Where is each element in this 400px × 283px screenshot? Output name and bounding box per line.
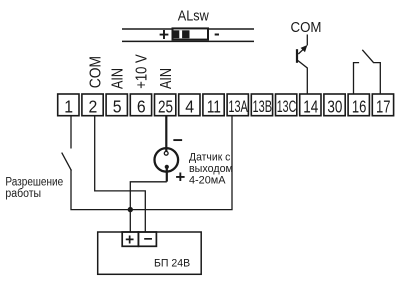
svg-text:16: 16 xyxy=(352,96,367,116)
svg-text:30: 30 xyxy=(327,96,342,116)
svg-text:4: 4 xyxy=(185,96,194,116)
svg-text:13C: 13C xyxy=(277,98,297,116)
svg-text:БП 24В: БП 24В xyxy=(154,257,190,269)
svg-text:AIN: AIN xyxy=(109,68,126,89)
svg-text:+: + xyxy=(175,167,185,186)
svg-text:25: 25 xyxy=(158,96,173,116)
svg-text:14: 14 xyxy=(303,96,318,116)
svg-text:работы: работы xyxy=(5,188,41,200)
svg-text:-: - xyxy=(214,24,220,43)
svg-text:+: + xyxy=(125,232,134,249)
svg-text:13A: 13A xyxy=(228,98,248,116)
svg-text:Датчик с: Датчик с xyxy=(189,151,231,163)
svg-text:выходом: выходом xyxy=(189,163,233,175)
svg-text:6: 6 xyxy=(137,96,146,116)
svg-text:−: − xyxy=(143,231,152,248)
svg-text:11: 11 xyxy=(207,96,221,116)
svg-text:−: − xyxy=(173,130,183,150)
svg-text:1: 1 xyxy=(64,96,73,116)
svg-text:5: 5 xyxy=(113,96,122,116)
svg-text:Разрешение: Разрешение xyxy=(5,177,63,189)
svg-text:+: + xyxy=(159,25,169,45)
svg-text:AIN: AIN xyxy=(158,68,175,89)
svg-text:13B: 13B xyxy=(253,98,273,116)
svg-text:COM: COM xyxy=(87,56,104,88)
svg-text:4-20мА: 4-20мА xyxy=(189,174,226,186)
svg-text:COM: COM xyxy=(291,20,322,36)
svg-text:ALsw: ALsw xyxy=(178,7,209,24)
svg-text:17: 17 xyxy=(376,96,391,116)
svg-text:+10 V: +10 V xyxy=(134,54,151,89)
svg-text:2: 2 xyxy=(89,96,98,116)
